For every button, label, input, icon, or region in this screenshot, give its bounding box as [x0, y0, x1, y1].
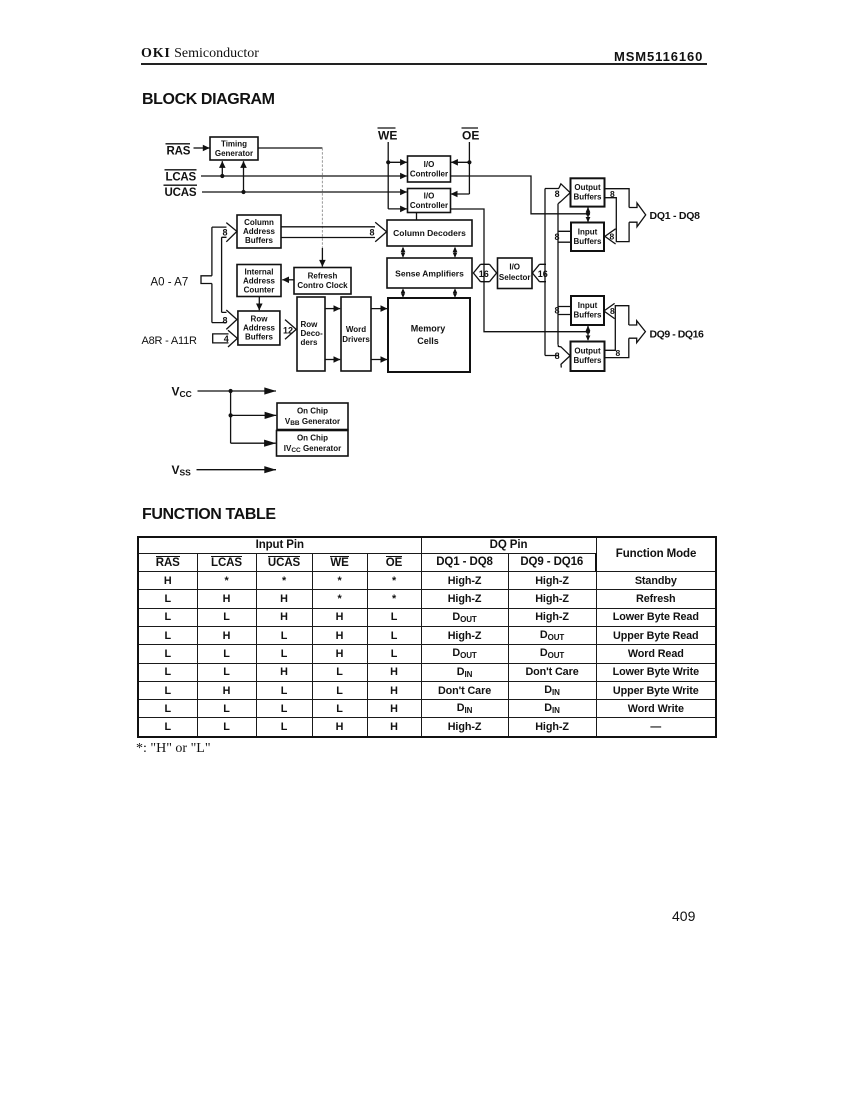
svg-text:OE: OE	[462, 129, 479, 143]
svg-text:WE: WE	[378, 129, 397, 143]
wire Word Drivers to Memory Cells (lower)	[371, 359, 387, 361]
svg-text:On Chip: On Chip	[297, 434, 328, 443]
wire Row Decoders to Word Drivers (lower)	[325, 359, 340, 361]
svg-text:Generator: Generator	[215, 149, 253, 158]
bus arrow 8 into upper Output Buffers	[558, 184, 570, 204]
block Refresh Contro Clock	[294, 268, 351, 295]
wire bus to upper Input Buffers (8)	[558, 231, 572, 242]
svg-text:Drivers: Drivers	[342, 335, 370, 344]
A0-A7 bus to Column Address Buffers	[212, 227, 227, 237]
bus arrow 4 into Row Address Buffers	[228, 330, 237, 347]
junction lower buffers	[586, 330, 590, 334]
svg-text:UCAS: UCAS	[165, 187, 197, 199]
svg-text:Row: Row	[301, 320, 319, 329]
block Timing Generator	[210, 137, 258, 160]
wire WE to I/O Controller 2	[388, 208, 407, 210]
A0-A7 bus to Row Address Buffers	[212, 312, 227, 322]
wire WE to I/O Controller 1	[388, 161, 407, 163]
svg-text:Internal: Internal	[245, 268, 274, 277]
svg-text:8: 8	[616, 348, 621, 358]
wire Vss	[197, 469, 277, 471]
junction LCAS	[220, 174, 224, 178]
svg-text:A0 - A7: A0 - A7	[151, 277, 189, 289]
wire Word Drivers to Memory Cells (upper)	[371, 308, 387, 310]
svg-text:Input: Input	[578, 228, 598, 237]
heading FUNCTION TABLE	[142, 506, 276, 524]
svg-text:8: 8	[555, 306, 560, 316]
header rule	[141, 63, 707, 65]
svg-text:Buffers: Buffers	[245, 333, 274, 342]
junction UCAS	[241, 190, 245, 194]
wire OE to I/O Controller 1	[451, 161, 469, 163]
svg-text:VBB Generator: VBB Generator	[285, 417, 340, 427]
svg-text:8: 8	[223, 316, 228, 326]
node LCAS label	[166, 172, 197, 184]
svg-text:Row: Row	[251, 315, 269, 324]
junction Vcc 1	[229, 389, 233, 393]
svg-text:I/O: I/O	[509, 263, 520, 272]
wire buffer bus 2 (input buffers)	[557, 204, 559, 345]
block I/O Controller 2	[408, 189, 451, 213]
svg-text:Output: Output	[574, 183, 601, 192]
wire Refresh Contro Clock to Internal Address Counter	[282, 279, 294, 281]
svg-text:Column Decoders: Column Decoders	[393, 228, 466, 238]
A0-A7 bus outline vertical	[212, 227, 222, 323]
svg-text:I/O: I/O	[424, 160, 435, 169]
block Input Buffers (upper)	[571, 223, 604, 252]
wire Internal Address Counter to Row Address Buffers	[258, 297, 260, 311]
wire buffer bus 1 (output buffers)	[545, 189, 559, 356]
wire DQ1-DQ8 port to upper Input Buffers	[605, 198, 629, 242]
footnote	[136, 741, 211, 757]
svg-text:LCAS: LCAS	[166, 172, 197, 184]
svg-text:VSS: VSS	[172, 463, 192, 477]
block Memory Cells	[388, 298, 470, 372]
wire OE vertical	[468, 142, 470, 194]
arrow into lower Input Buffers (8)	[604, 303, 615, 318]
wire between lower Input and Output Buffers	[586, 326, 591, 341]
svg-text:Buffers: Buffers	[573, 193, 602, 202]
wire I/O Controller 2 to Column Decoders	[416, 213, 418, 220]
svg-text:Timing: Timing	[221, 140, 247, 149]
wire Timing Generator output	[258, 147, 322, 149]
bus arrow 16 Sense Amplifiers / I/O Selector	[473, 264, 496, 281]
svg-text:Address: Address	[243, 227, 276, 236]
svg-text:Column: Column	[244, 218, 274, 227]
wire I/O Controller 1 output to DQ1-8 buffers junction	[451, 176, 589, 214]
svg-text:Selector: Selector	[499, 273, 531, 282]
wire UCAS branch up to Timing Generator	[243, 161, 245, 192]
wire RAS to Timing Generator	[194, 147, 210, 149]
bus arrow 12 into Row Decoders	[285, 320, 296, 340]
node UCAS label	[165, 187, 197, 199]
block I/O Selector	[498, 258, 533, 289]
arrow into upper Input Buffers (8)	[605, 229, 616, 244]
LCAS overline	[165, 169, 197, 171]
port arrow DQ1 - DQ8	[629, 203, 646, 227]
wire I/O Controller 2 output to DQ9-16 buffers junction	[451, 209, 589, 332]
node RAS label	[167, 146, 191, 158]
node DQ9 - DQ16 label	[650, 329, 704, 341]
block Input Buffers (lower)	[571, 296, 604, 325]
wire upper Output Buffers to DQ1-DQ8 port	[605, 189, 629, 208]
A8R-A11R bus stub	[213, 334, 229, 343]
junction upper buffers	[586, 212, 590, 216]
wire Vcc	[198, 390, 277, 392]
bus Column Address Buffers to Column Decoders	[281, 227, 375, 238]
node Vcc label	[172, 385, 192, 399]
wire LCAS branch up to Timing Generator	[221, 161, 223, 176]
junction WE	[386, 160, 390, 164]
svg-text:Output: Output	[574, 347, 601, 356]
wire WE vertical	[387, 142, 389, 209]
heading BLOCK DIAGRAM	[142, 91, 275, 109]
UCAS overline	[164, 184, 198, 186]
svg-text:I/O: I/O	[424, 192, 435, 201]
svg-text:Buffers: Buffers	[245, 236, 274, 245]
wire UCAS to I/O Controller 2	[202, 191, 407, 193]
svg-text:Controller: Controller	[410, 201, 448, 210]
svg-text:8: 8	[610, 232, 615, 242]
svg-text:8: 8	[223, 228, 228, 238]
svg-text:On Chip: On Chip	[297, 407, 328, 416]
block Word Drivers	[341, 297, 371, 371]
node Vss label	[172, 463, 192, 477]
block Row Decoders	[297, 297, 325, 371]
wire Vcc to VBB generator	[231, 414, 277, 416]
svg-text:Cells: Cells	[417, 336, 439, 346]
svg-text:Address: Address	[243, 324, 276, 333]
svg-text:4: 4	[224, 334, 229, 344]
svg-text:Input: Input	[578, 301, 598, 310]
block I/O Controller 1	[408, 156, 451, 182]
svg-text:16: 16	[538, 269, 548, 279]
svg-text:Buffers: Buffers	[573, 237, 602, 246]
wire DQ9-DQ16 port to lower Input Buffers	[605, 306, 629, 351]
svg-text:Buffers: Buffers	[573, 311, 602, 320]
node DQ1 - DQ8 label	[650, 210, 701, 222]
wire Column Decoders / Sense Amplifiers arrows	[401, 247, 406, 258]
block Row Address Buffers	[238, 311, 280, 345]
svg-text:Controller: Controller	[410, 170, 448, 179]
header: MSM5116160	[614, 49, 703, 64]
svg-text:DQ9 - DQ16: DQ9 - DQ16	[650, 329, 704, 341]
wire between upper Output and Input Buffers	[586, 207, 591, 222]
svg-text:RAS: RAS	[167, 146, 191, 158]
svg-text:Contro Clock: Contro Clock	[297, 281, 348, 290]
block Column Address Buffers	[237, 215, 281, 248]
block Internal Address Counter	[237, 265, 281, 297]
block Column Decoders	[387, 220, 472, 246]
svg-text:Word: Word	[346, 325, 366, 334]
RAS overline	[166, 143, 191, 145]
wire lower Output Buffers to DQ9-DQ16 port	[605, 338, 629, 357]
svg-text:Buffers: Buffers	[573, 356, 602, 365]
bus arrow 8 into Column Decoders	[375, 222, 386, 242]
svg-text:8: 8	[555, 189, 560, 199]
WE overline	[378, 127, 396, 129]
wire OE to I/O Controller 2	[451, 193, 470, 195]
svg-text:Refresh: Refresh	[308, 272, 338, 281]
bus arrow 8 into lower Output Buffers	[558, 345, 570, 368]
wire bus to lower Input Buffers (8)	[558, 307, 571, 315]
node A0 - A7 label	[151, 277, 189, 289]
header: OKI Semiconductor	[141, 46, 259, 62]
svg-text:8: 8	[610, 306, 615, 316]
page number 409	[672, 908, 695, 924]
wire LCAS to I/O Controller 1	[201, 175, 407, 177]
wire Sense Amplifiers / Memory Cells arrows	[401, 288, 406, 297]
svg-text:8: 8	[555, 351, 560, 361]
block Sense Amplifiers	[387, 258, 472, 288]
block On Chip IVcc Generator	[277, 431, 349, 457]
block Output Buffers (lower)	[571, 342, 605, 372]
wire timing to Refresh Contro Clock	[321, 148, 323, 248]
svg-text:16: 16	[479, 269, 489, 279]
svg-text:DQ1 - DQ8: DQ1 - DQ8	[650, 210, 701, 222]
svg-text:IVCC Generator: IVCC Generator	[284, 444, 341, 454]
wire Row Decoders to Word Drivers (upper)	[325, 308, 340, 310]
svg-text:Deco-: Deco-	[301, 329, 324, 338]
block On Chip VBB Generator	[277, 403, 348, 430]
junction Vcc 2	[229, 413, 233, 417]
bus arrow 16 I/O Selector to buffer bus	[532, 264, 546, 281]
svg-text:Address: Address	[243, 277, 276, 286]
A0-A7 bus stub	[201, 276, 212, 284]
OE overline	[462, 127, 479, 129]
function table	[137, 536, 717, 738]
wire Vcc vertical	[230, 391, 232, 443]
node A8R - A11R label	[142, 335, 198, 347]
bus arrow 8 into Column Address Buffers	[226, 223, 237, 242]
junction OE	[467, 160, 471, 164]
wire Vcc to IVcc generator	[231, 442, 276, 444]
block Output Buffers (upper)	[571, 178, 605, 206]
svg-text:12: 12	[283, 326, 293, 336]
svg-text:8: 8	[370, 228, 375, 238]
svg-text:Sense Amplifiers: Sense Amplifiers	[395, 269, 464, 279]
svg-text:ders: ders	[301, 338, 318, 347]
svg-text:VCC: VCC	[172, 385, 192, 399]
svg-text:A8R - A11R: A8R - A11R	[142, 335, 198, 347]
node OE label	[462, 129, 479, 143]
svg-text:Counter: Counter	[244, 286, 275, 295]
svg-text:Memory: Memory	[411, 324, 446, 334]
node WE label	[378, 129, 397, 143]
svg-text:8: 8	[555, 232, 560, 242]
port arrow DQ9 - DQ16	[629, 321, 646, 343]
bus arrow 8 into Row Address Buffers	[226, 310, 237, 329]
